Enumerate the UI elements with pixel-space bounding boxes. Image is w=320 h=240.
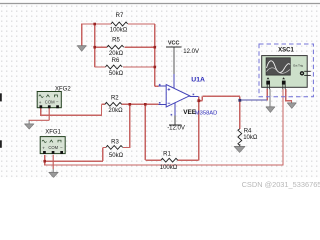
svg-text:R4: R4 [244,128,252,134]
svg-text:R5: R5 [112,38,120,44]
wire R1 row [145,159,161,161]
pin number 3 [159,84,161,86]
oscilloscope instrument icon [262,56,311,90]
wire output row [202,95,240,97]
wire long bottom line to scope B [45,164,283,166]
wire XFG1 plus lead [44,155,46,165]
junction node R2-R1 [144,103,147,106]
resistor R7 [111,22,128,26]
svg-text:VCC: VCC [168,40,180,46]
wire R2 row to opamp inverting input [102,103,106,105]
wire output step [199,100,203,102]
svg-text:XFG1: XFG1 [45,129,61,135]
svg-text:100kΩ: 100kΩ [110,27,128,33]
junction node R4 top blue [238,99,241,102]
svg-text:VEE: VEE [183,109,197,116]
svg-text:−: − [60,145,63,150]
plus mark inside [168,88,171,90]
op-amp U1A LM358AD [159,76,218,116]
svg-text:R6: R6 [112,58,120,64]
svg-text:R3: R3 [111,139,119,145]
sine trace big [267,61,291,73]
VEE pin of opamp [174,103,176,116]
VCC pin of opamp [173,74,175,89]
svg-text:XFG2: XFG2 [55,87,71,93]
wire R6 row [95,66,106,68]
wire to opamp noninverting input [154,85,158,87]
wire riser to R2 [101,104,103,116]
svg-text:R2: R2 [111,95,119,101]
pin number 1 [193,94,195,96]
wire ladder left edge [94,24,96,67]
left edge scrollbar mark 1 [0,93,2,101]
svg-text:−: − [56,100,59,105]
wire ground stub left [81,24,83,46]
svg-text:U1A: U1A [191,76,205,83]
wire R1 riser from input node [144,104,146,160]
pin number 4 [171,114,173,116]
wire R3 left riser down [102,147,104,161]
junction node R5 left [93,46,96,49]
pin number 2 [159,102,161,104]
left edge scrollbar mark 2 [0,140,2,148]
sine trace small [267,68,291,74]
ground scope A minus [266,107,275,112]
svg-text:12.0V: 12.0V [183,49,199,55]
svg-text:XSC1: XSC1 [278,48,294,54]
wire scope B plus vertical [282,89,284,165]
ground XFG2 com [25,108,50,129]
wire ladder right edge [154,24,156,86]
svg-text:50kΩ: 50kΩ [109,71,124,77]
wire ladder top R7 row [82,23,111,25]
wire R4 bottom lead [239,144,241,147]
resistor R2 [105,102,122,106]
VCC supply symbol [166,40,199,74]
svg-text:COM: COM [45,100,55,105]
wire R4 lead [239,100,241,129]
junction node opamp output [197,99,200,102]
wire scope A plus [266,89,268,101]
wire blue A channel segment [240,99,267,101]
pin stub noninverting top [159,85,167,87]
svg-text:20kΩ: 20kΩ [108,108,123,114]
svg-text:+: + [42,146,45,151]
junction node R2-R3 [129,103,132,106]
VEE supply symbol [167,116,185,132]
svg-text:CSDN @2031_5336765: CSDN @2031_5336765 [242,180,320,189]
ground R4 [234,147,245,153]
junction node XFG1 out [43,160,46,163]
top window edge line [0,3,320,5]
wire scope B minus hook [286,89,292,103]
XFG1 function generator [40,129,65,154]
XFG2 function generator [37,87,71,109]
pin stub output [190,95,199,97]
minus mark inside [168,102,171,104]
XSC1 oscilloscope selection box [259,44,313,97]
wire XFG2 output row [41,114,102,116]
wire R3 riser up [129,104,131,147]
ground ladder left [77,46,86,52]
svg-text:10kΩ: 10kΩ [243,135,258,141]
svg-text:50kΩ: 50kΩ [109,153,124,159]
junction node ladder top left [93,23,96,26]
resistor R4 vertical [238,129,242,146]
terminal A [267,77,270,79]
svg-text:100kΩ: 100kΩ [160,165,178,171]
wire R1 riser to output [198,97,200,161]
wire R3 row [123,146,131,148]
svg-text:+: + [39,100,42,105]
svg-text:M358AD: M358AD [195,110,218,116]
ground XFG1 com [49,155,58,178]
svg-text:COM: COM [48,145,58,150]
svg-text:R1: R1 [163,151,171,157]
junction node R5 right [154,46,157,49]
junction node R6 right [154,66,157,69]
resistor R6 [106,65,123,69]
resistor R3 [106,146,123,150]
svg-text:R7: R7 [116,13,124,19]
resistor R1 [161,158,178,162]
resistor R5 [107,45,124,49]
terminal B [282,77,285,79]
ground scope B minus [287,103,296,108]
wire XFG1 to R3 row [45,160,103,162]
svg-text:20kΩ: 20kΩ [109,51,124,57]
wire R5 row [95,46,107,48]
svg-text:Ext Trig: Ext Trig [293,63,303,67]
wire down to A junction [239,96,241,100]
wire XFG2 plus lead [40,108,42,116]
ext trig terminal [300,71,304,75]
pin stub inverting bottom [159,103,167,105]
svg-text:-12.0V: -12.0V [167,126,185,132]
watermark band [0,178,320,195]
wire scope A minus grey [269,89,271,107]
